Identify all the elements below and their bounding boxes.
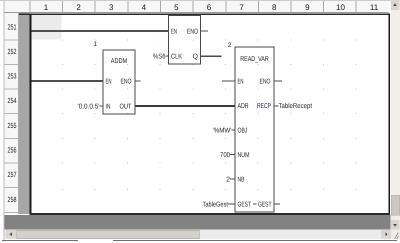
row header right border xyxy=(18,13,19,214)
svg-text:READ_VAR: READ_VAR xyxy=(240,56,269,63)
svg-text:OBJ: OBJ xyxy=(238,128,248,135)
wire TableGest to GEST xyxy=(228,204,235,205)
svg-text:EN: EN xyxy=(106,79,112,86)
wire rail row251 to EN of edge block xyxy=(31,30,168,32)
svg-text:IN: IN xyxy=(106,104,111,111)
svg-text:2: 2 xyxy=(226,177,230,184)
selected cell highlight xyxy=(31,15,61,39)
svg-text:NB: NB xyxy=(238,177,245,184)
wire Q output xyxy=(201,56,222,58)
ENO stub (READ_VAR) xyxy=(274,81,282,82)
grid dots xyxy=(62,40,357,191)
svg-text:'0.0.0.5': '0.0.0.5' xyxy=(78,104,100,111)
svg-text:256: 256 xyxy=(8,146,17,155)
svg-text:ADR: ADR xyxy=(238,103,249,110)
svg-text:CLK: CLK xyxy=(171,54,182,61)
status bar top border segments xyxy=(2,240,78,241)
wire '0.0.0.5' to IN xyxy=(100,106,104,107)
ENO stub (ADDM) xyxy=(136,81,141,82)
wire 2 to NB xyxy=(230,179,235,180)
svg-text:TableGest: TableGest xyxy=(203,201,229,209)
horizontal scrollbar thumb xyxy=(17,230,200,239)
vertical scrollbar up button xyxy=(391,0,400,10)
svg-text:EN: EN xyxy=(238,79,244,86)
svg-text:2: 2 xyxy=(76,3,81,12)
svg-text:1: 1 xyxy=(94,41,98,48)
svg-text:1: 1 xyxy=(44,3,49,12)
svg-text:251: 251 xyxy=(8,23,17,32)
horizontal scrollbar right button xyxy=(381,230,391,239)
EN stub (READ_VAR) xyxy=(222,81,235,82)
svg-text:4: 4 xyxy=(142,3,147,12)
svg-text:3: 3 xyxy=(109,3,114,12)
svg-text:10: 10 xyxy=(336,3,345,12)
row header separators xyxy=(5,40,19,213)
column header numbers xyxy=(44,3,379,12)
canvas left border xyxy=(30,14,32,215)
svg-text:%S6: %S6 xyxy=(153,54,166,61)
svg-text:700: 700 xyxy=(220,152,230,159)
function block ADDM xyxy=(103,50,135,114)
wire '%MW' to OBJ xyxy=(232,130,236,131)
row header column background xyxy=(5,13,19,214)
svg-text:OUT: OUT xyxy=(120,104,133,111)
svg-text:ENO: ENO xyxy=(187,29,198,36)
canvas bottom border xyxy=(30,213,191,215)
svg-text:Q: Q xyxy=(193,54,199,61)
horizontal scrollbar left button xyxy=(6,230,16,239)
svg-text:7: 7 xyxy=(239,3,244,12)
svg-text:ENO: ENO xyxy=(121,79,132,86)
column header tick lines xyxy=(30,1,357,12)
svg-text:ADDM: ADDM xyxy=(111,58,128,65)
canvas top border xyxy=(19,14,390,16)
canvas right border xyxy=(388,14,390,215)
left margin divider line xyxy=(4,0,5,241)
function block READ_VAR xyxy=(235,47,274,212)
dash between GEST pins xyxy=(253,204,257,205)
vertical scrollbar down button xyxy=(391,220,400,230)
horizontal scrollbar track xyxy=(5,230,391,240)
svg-text:8: 8 xyxy=(272,3,277,12)
svg-text:EN: EN xyxy=(171,29,177,36)
gray margin strip xyxy=(19,13,29,214)
svg-text:255: 255 xyxy=(8,121,17,130)
wire rail row253 to EN of ADDM xyxy=(31,80,103,82)
svg-text:253: 253 xyxy=(8,72,17,81)
dark gray band below canvas xyxy=(5,215,391,230)
svg-text:'%MW': '%MW' xyxy=(213,128,232,135)
svg-text:GEST: GEST xyxy=(238,202,252,209)
RECP stub xyxy=(274,106,279,107)
wire %S6 to CLK xyxy=(166,56,169,57)
row header numbers xyxy=(8,23,17,204)
svg-text:258: 258 xyxy=(8,195,17,204)
svg-text:252: 252 xyxy=(8,47,17,56)
GEST stub right xyxy=(274,204,280,205)
svg-text:6: 6 xyxy=(207,3,212,12)
svg-text:257: 257 xyxy=(8,170,17,179)
wire OUT to ADR xyxy=(136,105,236,107)
canvas bottom border right part xyxy=(190,213,390,215)
column header row background xyxy=(5,0,389,13)
svg-text:ENO: ENO xyxy=(260,79,271,86)
svg-text:RECP: RECP xyxy=(257,103,271,110)
edge-detect block U1 xyxy=(169,16,201,65)
svg-text:5: 5 xyxy=(174,3,179,12)
svg-text:254: 254 xyxy=(8,96,17,105)
vertical scrollbar thumb xyxy=(391,195,400,215)
ENO stub (edge block) xyxy=(201,31,209,32)
svg-text:2: 2 xyxy=(228,42,232,49)
column header bottom border xyxy=(5,12,389,13)
svg-text:TableRecept: TableRecept xyxy=(279,102,313,110)
svg-text:GEST: GEST xyxy=(258,202,272,209)
wire 700 to NUM xyxy=(230,154,235,155)
vertical scrollbar track xyxy=(391,0,400,231)
svg-text:11: 11 xyxy=(370,3,379,12)
svg-text:NUM: NUM xyxy=(238,152,250,159)
svg-text:9: 9 xyxy=(305,3,310,12)
corner size grip xyxy=(391,230,400,240)
